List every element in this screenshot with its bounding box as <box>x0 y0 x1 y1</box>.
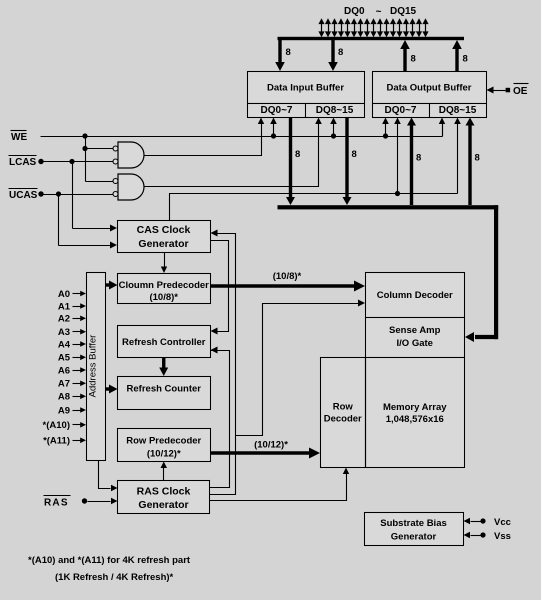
svg-text:8: 8 <box>295 149 300 160</box>
svg-text:~: ~ <box>376 7 382 18</box>
svg-text:I/O Gate: I/O Gate <box>397 338 433 349</box>
svg-text:UCAS: UCAS <box>9 190 38 201</box>
svg-text:DQ8~15: DQ8~15 <box>439 105 477 116</box>
svg-text:DQ0~7: DQ0~7 <box>385 105 417 116</box>
svg-text:Memory Array: Memory Array <box>383 402 447 413</box>
svg-text:Decoder: Decoder <box>324 414 362 425</box>
svg-text:(10/8)*: (10/8)* <box>273 271 302 282</box>
svg-text:Data Output Buffer: Data Output Buffer <box>387 83 472 94</box>
svg-text:(10/8)*: (10/8)* <box>149 292 178 303</box>
svg-text:8: 8 <box>286 47 291 58</box>
svg-text:Address Buffer: Address Buffer <box>88 335 99 398</box>
svg-text:Sense Amp: Sense Amp <box>389 325 441 336</box>
svg-text:A9: A9 <box>58 405 70 416</box>
svg-text:*(A10) and *(A11) for 4K refre: *(A10) and *(A11) for 4K refresh part <box>28 555 191 566</box>
svg-text:A2: A2 <box>58 314 70 325</box>
svg-text:Vss: Vss <box>494 531 511 542</box>
svg-text:CAS Clock: CAS Clock <box>137 224 191 236</box>
svg-text:Generator: Generator <box>138 238 188 250</box>
svg-text:A5: A5 <box>58 353 71 364</box>
svg-text:Vcc: Vcc <box>494 517 511 528</box>
svg-text:Row Predecoder: Row Predecoder <box>126 436 201 447</box>
svg-text:A7: A7 <box>58 379 70 390</box>
svg-text:8: 8 <box>463 54 468 65</box>
svg-text:Generator: Generator <box>391 532 437 543</box>
svg-text:A4: A4 <box>58 339 71 350</box>
svg-text:DQ8~15: DQ8~15 <box>316 105 354 116</box>
svg-text:*(A10): *(A10) <box>43 420 70 431</box>
svg-text:DQ15: DQ15 <box>390 6 417 17</box>
svg-text:Cloumn Predecoder: Cloumn Predecoder <box>119 280 210 291</box>
svg-text:OE: OE <box>513 86 528 97</box>
svg-text:Refresh Counter: Refresh Counter <box>127 384 202 395</box>
svg-text:LCAS: LCAS <box>9 157 37 168</box>
svg-text:DQ0~7: DQ0~7 <box>261 105 293 116</box>
svg-text:WE: WE <box>11 132 27 143</box>
svg-text:(10/12)*: (10/12)* <box>254 440 288 451</box>
svg-text:A6: A6 <box>58 365 70 376</box>
svg-text:8: 8 <box>411 54 416 65</box>
svg-text:8: 8 <box>475 153 480 164</box>
svg-text:DQ0: DQ0 <box>344 6 365 17</box>
svg-text:Substrate Bias: Substrate Bias <box>380 518 447 529</box>
svg-text:8: 8 <box>352 149 357 160</box>
svg-text:A0: A0 <box>58 289 70 300</box>
svg-text:RAS: RAS <box>44 498 69 509</box>
svg-text:Refresh Controller: Refresh Controller <box>122 337 206 348</box>
svg-text:A8: A8 <box>58 392 70 403</box>
svg-text:*(A11): *(A11) <box>43 436 70 447</box>
svg-text:8: 8 <box>338 47 343 58</box>
svg-text:Row: Row <box>333 402 354 413</box>
svg-text:Column Decoder: Column Decoder <box>377 290 453 301</box>
svg-text:(1K Refresh / 4K Refresh)*: (1K Refresh / 4K Refresh)* <box>55 572 174 583</box>
svg-text:8: 8 <box>416 153 421 164</box>
svg-text:(10/12)*: (10/12)* <box>147 449 181 460</box>
svg-text:A3: A3 <box>58 327 70 338</box>
svg-text:A1: A1 <box>58 301 71 312</box>
svg-text:Generator: Generator <box>138 499 188 511</box>
svg-text:RAS Clock: RAS Clock <box>137 486 191 498</box>
svg-text:Data Input Buffer: Data Input Buffer <box>267 83 344 94</box>
svg-text:1,048,576x16: 1,048,576x16 <box>386 414 444 425</box>
